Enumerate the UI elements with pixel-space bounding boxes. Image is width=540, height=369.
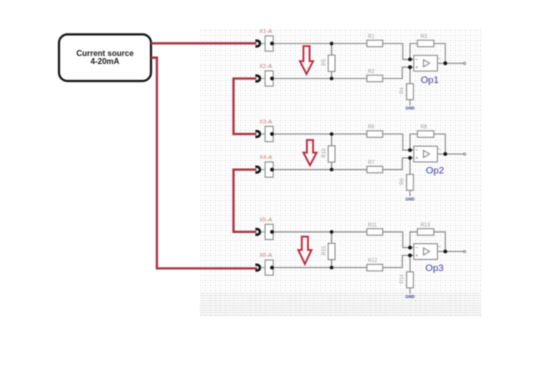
svg-text:X4-A: X4-A bbox=[259, 155, 272, 161]
node plus input junction bbox=[408, 65, 412, 69]
svg-text:R7: R7 bbox=[368, 160, 375, 166]
ground bbox=[405, 196, 414, 201]
connector X3-A bbox=[257, 119, 274, 141]
svg-text:R11: R11 bbox=[368, 222, 377, 228]
resistor R2 bbox=[367, 69, 383, 82]
wire: source bottom down and right to X6-A bbox=[151, 58, 257, 269]
resistor R10 bbox=[321, 132, 335, 171]
node minus input junction bbox=[408, 58, 412, 62]
node plus input junction bbox=[408, 156, 412, 160]
resistor R9 to ground bbox=[400, 158, 414, 196]
node connector B junction bbox=[270, 266, 274, 270]
node output junction bbox=[443, 152, 447, 156]
connector X5-A bbox=[257, 217, 274, 239]
node output junction bbox=[443, 61, 447, 65]
op-amp Op2 bbox=[414, 146, 444, 177]
wire: jumper X2-A to X3-A bbox=[234, 79, 257, 135]
svg-text:GND: GND bbox=[405, 294, 414, 299]
resistor R12 bbox=[367, 258, 383, 271]
svg-text:R8: R8 bbox=[421, 125, 428, 131]
resistor R7 bbox=[367, 160, 383, 173]
resistor R3 feedback bbox=[410, 34, 445, 63]
resistor R5 bbox=[321, 42, 335, 81]
node output junction bbox=[443, 250, 447, 254]
svg-text:X3-A: X3-A bbox=[259, 119, 272, 125]
arrow 1 current direction bbox=[300, 46, 313, 74]
arrow 2 current direction bbox=[303, 140, 316, 165]
node minus input junction bbox=[408, 246, 412, 250]
svg-text:Op1: Op1 bbox=[421, 75, 439, 86]
wire row A (R11 net) bbox=[273, 232, 414, 248]
svg-text:R12: R12 bbox=[368, 258, 377, 264]
svg-text:R4: R4 bbox=[400, 87, 406, 94]
arrow 3 current direction bbox=[298, 237, 311, 264]
connector X1-A bbox=[257, 29, 274, 51]
svg-text:R9: R9 bbox=[400, 178, 406, 185]
wire: source top to X1-A bbox=[151, 42, 256, 44]
svg-text:R2: R2 bbox=[368, 69, 375, 75]
op-amp Op3 bbox=[414, 244, 444, 275]
wire row A (R1 net) bbox=[273, 44, 414, 60]
node connector A junction bbox=[270, 230, 274, 234]
svg-text:Op3: Op3 bbox=[425, 263, 443, 274]
resistor R4 to ground bbox=[400, 67, 414, 105]
node connector B junction bbox=[270, 77, 274, 81]
wire row B (R12 net) bbox=[273, 255, 414, 267]
svg-text:Op2: Op2 bbox=[426, 166, 444, 177]
svg-text:R6: R6 bbox=[368, 124, 375, 130]
svg-text:R5: R5 bbox=[321, 59, 327, 66]
wire output net bbox=[437, 250, 465, 252]
svg-text:X6-A: X6-A bbox=[259, 253, 272, 259]
svg-text:4-20mA: 4-20mA bbox=[91, 57, 120, 66]
svg-text:R14: R14 bbox=[400, 274, 406, 283]
resistor R6 bbox=[367, 124, 383, 137]
op-amp Op1 bbox=[414, 55, 441, 86]
svg-text:R1: R1 bbox=[368, 34, 375, 40]
wire output net bbox=[437, 62, 465, 64]
svg-text:X2-A: X2-A bbox=[259, 64, 272, 70]
node connector A junction bbox=[270, 42, 274, 46]
svg-text:R15: R15 bbox=[321, 246, 327, 255]
wire: jumper X4-A to X5-A bbox=[234, 170, 257, 232]
wire row B (R7 net) bbox=[273, 158, 414, 170]
resistor R14 to ground bbox=[400, 255, 414, 293]
svg-text:GND: GND bbox=[405, 196, 414, 201]
wire row B (R2 net) bbox=[273, 67, 414, 78]
wire output net bbox=[437, 153, 465, 155]
node plus input junction bbox=[408, 254, 412, 258]
ground bbox=[405, 106, 414, 111]
svg-text:R13: R13 bbox=[421, 223, 430, 229]
svg-text:X5-A: X5-A bbox=[259, 217, 272, 223]
resistor R1 bbox=[367, 34, 383, 47]
current source box bbox=[59, 34, 151, 81]
svg-text:GND: GND bbox=[405, 106, 414, 111]
wire row A (R6 net) bbox=[273, 134, 414, 150]
node connector B junction bbox=[270, 168, 274, 172]
node connector A junction bbox=[270, 132, 274, 136]
svg-text:X1-A: X1-A bbox=[259, 29, 272, 35]
node minus input junction bbox=[408, 148, 412, 152]
svg-text:R10: R10 bbox=[321, 148, 327, 157]
connector X2-A bbox=[257, 64, 274, 86]
resistor R11 bbox=[367, 222, 383, 235]
ground bbox=[405, 294, 414, 299]
svg-text:R3: R3 bbox=[421, 34, 428, 40]
resistor R13 feedback bbox=[410, 223, 445, 252]
resistor R15 bbox=[321, 230, 335, 269]
connector X4-A bbox=[257, 155, 274, 177]
connector X6-A bbox=[257, 253, 274, 275]
resistor R8 feedback bbox=[410, 125, 445, 154]
